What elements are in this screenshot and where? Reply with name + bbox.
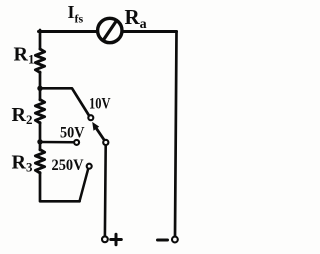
svg-text:R2: R2 [12,104,33,127]
wire left vertical (top to R1) [39,30,42,49]
label minus sign [158,239,168,242]
wire 10V tap [40,88,89,116]
node 50V contact [74,140,79,145]
node wiper pivot [103,140,108,145]
wire pivot to plus terminal [104,146,107,237]
svg-text:R1: R1 [14,44,35,67]
resistor R1 [35,49,44,73]
wire top-left horizontal [39,30,98,33]
svg-text:50V: 50V [60,124,85,141]
node junction R1/R2 [37,86,42,91]
label plus sign [111,234,122,245]
svg-text:Ra: Ra [125,5,147,32]
svg-text:250V: 250V [52,157,85,174]
wire top-right horizontal [123,30,177,33]
wire R3 to bottom corner [40,173,80,202]
wire 250V riser diagonal [80,170,89,202]
node junction R2/R3 [37,139,42,144]
switch arrowhead [92,122,99,131]
svg-text:R3: R3 [12,152,33,175]
wire R1 to R2 [39,72,42,100]
node minus terminal [172,237,178,243]
switch wiper arm [96,128,106,142]
wire 50V tap [40,141,74,144]
node 250V contact [87,164,92,169]
wire R2 to R3 [39,123,42,151]
meter U1 (Ifs) [98,18,122,42]
node plus terminal [102,236,108,242]
node 10V contact [88,115,93,120]
resistor R3 [35,150,44,174]
resistor R2 [35,100,44,124]
wire right vertical [175,32,177,237]
svg-text:10V: 10V [89,95,111,112]
svg-text:Ifs: Ifs [68,2,84,26]
